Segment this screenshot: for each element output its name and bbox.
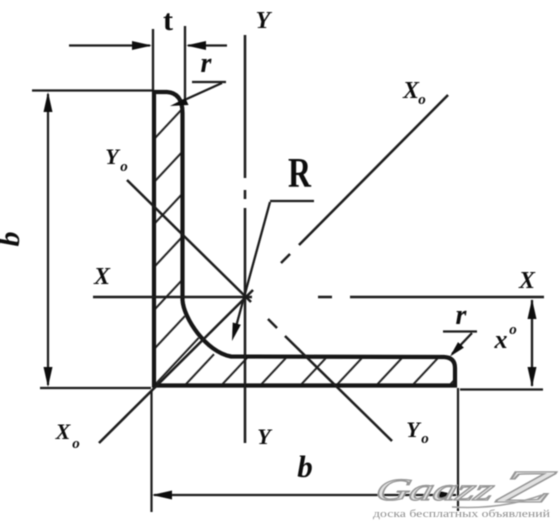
svg-text:o: o [120,159,128,175]
arrow b-bottom left [152,491,172,500]
dim line left part [69,44,150,46]
svg-text:t: t [163,4,173,37]
svg-text:X: X [518,268,536,294]
Y0 axis (45 deg) [127,180,392,441]
arrow x0 down [528,367,537,387]
X0 axis (45 deg) [99,95,448,443]
hatching of cross-section [150,103,479,390]
svg-text:o: o [418,92,426,108]
arrow b-left up [44,92,53,112]
extension left [150,391,152,512]
X axis (horizontal centroid axis) [93,296,544,299]
x0 dimension (right) [460,300,543,390]
svg-text:доска бесплатных объявлений: доска бесплатных объявлений [373,509,551,520]
svg-text:X: X [93,264,111,290]
arrow r right [450,342,464,356]
arrow x0 up [528,299,537,319]
dim line [531,300,533,386]
dim line [154,494,456,496]
t dimension (top) [69,26,227,99]
svg-text:Gaazz: Gaazz [372,472,498,506]
arrow b-bottom right [437,491,457,500]
extension right [457,388,459,511]
extension top [32,89,152,91]
b dimension (left) [32,91,152,389]
arrow R to inner radius [232,323,241,342]
b dimension (bottom) [152,388,459,512]
svg-text:b: b [0,232,26,247]
horizontal leg hatch [181,354,215,390]
extension line right [184,26,186,99]
svg-text:o: o [421,431,429,447]
extension bottom [40,387,151,389]
svg-text:o: o [72,436,80,452]
extension line left [152,29,154,90]
corner region hatch [150,300,200,354]
svg-text:R: R [288,151,311,197]
svg-text:o: o [509,322,517,338]
arrow r top [170,98,189,106]
svg-text:x: x [494,325,508,354]
watermark Z swash [452,495,542,508]
r leader underline and leader line [180,82,226,102]
Y axis (vertical centroid axis) [244,35,247,443]
svg-text:b: b [297,449,313,484]
r-right leader underline and leader line [443,332,477,355]
svg-text:r: r [201,48,213,79]
angle profile outline [154,92,455,386]
vertical leg hatch [150,103,188,144]
watermark GaazzZ [371,462,560,513]
arrow t left [132,41,152,50]
dim line right part [188,44,227,46]
svg-text:Y: Y [256,8,273,34]
arrow t right [186,41,206,50]
svg-text:X: X [55,419,72,444]
dim line [47,94,49,385]
arrow b-left down [44,367,53,387]
svg-text:r: r [456,300,468,331]
R leader underline and leader line [234,201,314,334]
extension: bottom edge extended right [460,388,543,390]
